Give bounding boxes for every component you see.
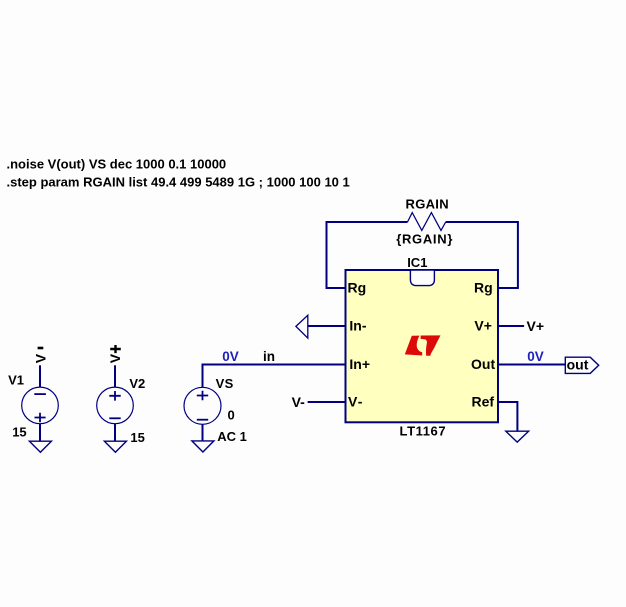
svg-text:Ref: Ref — [472, 393, 495, 409]
voltage source VS circle — [184, 387, 221, 424]
svg-text:In-: In- — [349, 317, 366, 333]
LT logo right glyph — [421, 335, 441, 355]
wire In+ from VS — [203, 365, 346, 388]
wire V2 bottom — [114, 424, 116, 442]
wire In- stub — [308, 325, 346, 327]
wire V+ stub — [498, 325, 524, 327]
net label V+ plus — [110, 345, 121, 353]
wire Out stub — [498, 364, 565, 366]
svg-text:15: 15 — [130, 430, 144, 445]
wire V- stub — [308, 401, 346, 403]
net label V- dash — [38, 347, 44, 350]
svg-text:{RGAIN}: {RGAIN} — [396, 231, 453, 246]
svg-text:IC1: IC1 — [407, 255, 427, 270]
svg-text:0V: 0V — [222, 349, 239, 364]
VS plus sign — [197, 391, 208, 401]
wire top feedback loop left segment — [327, 222, 408, 288]
svg-text:RGAIN: RGAIN — [406, 196, 449, 211]
svg-text:V1: V1 — [8, 372, 24, 387]
In- dangling arrow — [296, 315, 308, 338]
svg-text:Out: Out — [471, 356, 495, 372]
wire V1 bottom — [39, 424, 41, 442]
svg-text:out: out — [567, 356, 589, 372]
svg-text:.noise V(out) VS dec 1000 0.1: .noise V(out) VS dec 1000 0.1 10000 — [7, 157, 227, 172]
svg-text:0V: 0V — [527, 349, 544, 364]
V2 minus sign — [109, 417, 120, 419]
svg-text:LT1167: LT1167 — [400, 423, 447, 438]
svg-text:15: 15 — [12, 424, 26, 439]
op-amp IC1 body LT1167 — [346, 270, 499, 422]
svg-text:Rg: Rg — [348, 279, 367, 295]
LT logo left glyph — [405, 336, 422, 356]
svg-text:V-: V- — [348, 393, 364, 409]
voltage source V2 circle — [97, 387, 134, 424]
wire Ref to ground — [498, 402, 517, 431]
svg-text:V: V — [32, 353, 48, 363]
svg-text:V2: V2 — [129, 376, 145, 391]
wire VS bottom — [202, 424, 204, 441]
resistor RGAIN zigzag — [408, 213, 446, 231]
VS minus sign — [197, 419, 208, 421]
IC1 notch — [410, 270, 434, 286]
svg-text:V: V — [107, 353, 123, 363]
ground below V1 — [29, 441, 51, 452]
svg-text:.step param RGAIN list 49.4 49: .step param RGAIN list 49.4 499 5489 1G … — [7, 175, 350, 190]
wire V2 top — [114, 365, 116, 387]
V1 minus sign — [34, 393, 46, 395]
svg-text:in: in — [263, 349, 275, 364]
svg-text:V+: V+ — [474, 317, 492, 333]
wire V1 top — [39, 365, 41, 387]
V2 plus sign — [109, 391, 120, 401]
svg-text:AC 1: AC 1 — [217, 429, 247, 444]
svg-text:VS: VS — [216, 376, 234, 391]
V1 plus sign — [35, 413, 46, 423]
svg-text:Rg: Rg — [474, 279, 493, 295]
ground below Ref — [506, 431, 529, 442]
svg-text:In+: In+ — [349, 356, 370, 372]
svg-text:V+: V+ — [527, 318, 545, 334]
output port out — [565, 357, 598, 373]
ground below V2 — [104, 441, 126, 452]
voltage source V1 circle — [22, 387, 59, 424]
ground below VS — [192, 441, 214, 452]
wire top feedback loop right segment — [446, 222, 518, 288]
svg-text:0: 0 — [228, 408, 235, 423]
svg-text:V-: V- — [292, 394, 306, 410]
